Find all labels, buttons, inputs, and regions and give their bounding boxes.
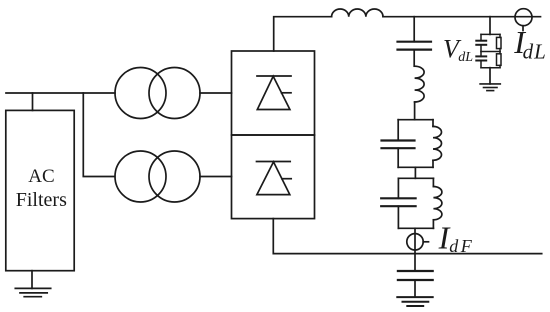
- label IdF: [438, 220, 475, 257]
- wire DC pole line: [383, 16, 541, 18]
- thyristor valve lower: [257, 162, 292, 195]
- label VdL: [443, 35, 473, 65]
- wire T1 to converter: [200, 92, 232, 94]
- svg-text:Filters: Filters: [16, 189, 67, 211]
- label AC Filters: [16, 166, 67, 211]
- wire tank2 to neutral bus: [414, 228, 416, 253]
- capacitor C (DC filter series): [398, 42, 432, 50]
- ground (divider): [480, 84, 500, 91]
- converter box upper: [232, 51, 315, 135]
- wire drop to voltage divider: [489, 17, 491, 35]
- converter box lower: [232, 135, 315, 219]
- wire T2 to converter: [200, 176, 232, 178]
- transformer T2: [115, 151, 200, 202]
- wire: [414, 102, 416, 120]
- wire drop to AC filters: [32, 93, 34, 110]
- AC filters box: [6, 110, 74, 270]
- wire DC neutral bus: [273, 219, 541, 254]
- thyristor valve upper: [257, 76, 291, 110]
- LC tank 1: [382, 120, 442, 168]
- wire drop to DC filter: [413, 17, 415, 42]
- wire tank connector: [414, 167, 416, 178]
- label IdL: [513, 24, 546, 64]
- wire divider to ground: [489, 68, 491, 84]
- ground (AC filters): [15, 271, 50, 297]
- svg-text:dL: dL: [523, 39, 547, 63]
- smoothing reactor L: [332, 9, 383, 17]
- LC tank 2: [381, 178, 442, 228]
- capacitor (neutral to ground): [398, 254, 433, 298]
- voltage divider VdL: [476, 34, 501, 67]
- inductor (DC filter series): [415, 66, 425, 102]
- ground (neutral): [397, 297, 432, 306]
- wire: [413, 50, 415, 67]
- current transducer IdF: [407, 234, 429, 250]
- svg-text:dL: dL: [458, 50, 473, 65]
- wire drop to lower transformer: [83, 93, 115, 177]
- transformer T1: [115, 68, 200, 119]
- wire converter top to DC pole line: [274, 17, 332, 51]
- svg-text:AC: AC: [28, 166, 54, 187]
- current transducer IdL: [515, 9, 532, 31]
- wire AC bus: [6, 92, 115, 94]
